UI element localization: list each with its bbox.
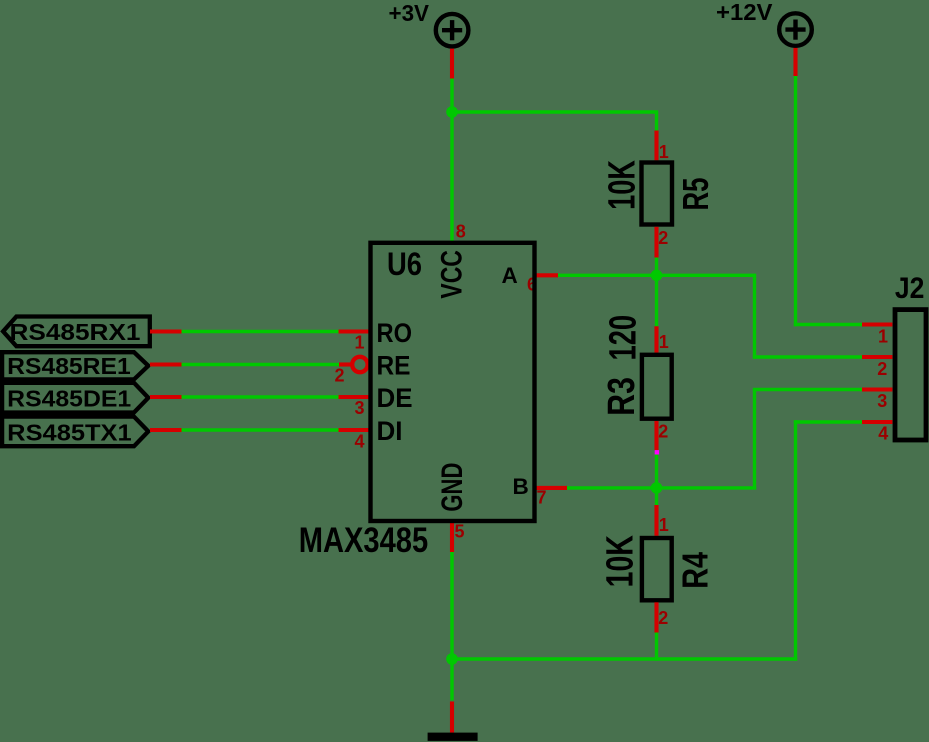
svg-text:J2: J2 xyxy=(895,272,925,305)
junction node A xyxy=(651,270,663,282)
pin stub flag DE1 xyxy=(150,395,182,399)
pin 3 DE stub xyxy=(339,395,369,399)
svg-text:RS485TX1: RS485TX1 xyxy=(7,419,132,445)
svg-text:2: 2 xyxy=(335,366,345,386)
pin 1 stub R4 xyxy=(654,505,658,536)
pin 2 RE stub with inversion bubble xyxy=(339,362,353,366)
svg-text:+12V: +12V xyxy=(716,0,773,25)
svg-text:1: 1 xyxy=(355,332,365,352)
wire RO net xyxy=(182,330,339,333)
body R4 xyxy=(642,538,672,600)
wire RE net xyxy=(182,363,340,366)
connector J2 xyxy=(862,272,926,444)
supply +12V pin stub xyxy=(793,48,797,76)
flag RS485RX1 xyxy=(3,317,150,347)
net GND wire xyxy=(450,420,862,700)
svg-text:3: 3 xyxy=(355,398,365,418)
pin 1 stub R5 xyxy=(654,131,658,161)
pin 1 stub R3 xyxy=(654,326,658,352)
svg-text:GND: GND xyxy=(436,463,469,512)
pin 4 stub J2 xyxy=(862,420,892,424)
svg-text:2: 2 xyxy=(877,359,887,379)
svg-text:+3V: +3V xyxy=(389,0,430,26)
resistor R4 xyxy=(599,505,715,661)
svg-text:RO: RO xyxy=(377,318,413,348)
pin stub flag TX1 xyxy=(150,428,182,432)
svg-text:1: 1 xyxy=(659,332,669,352)
svg-text:8: 8 xyxy=(456,221,466,241)
flag RS485TX1 xyxy=(2,417,148,447)
svg-text:4: 4 xyxy=(355,432,365,452)
svg-text:120: 120 xyxy=(602,315,644,361)
pin 1 stub J2 xyxy=(862,322,892,326)
supply +3V pin stub xyxy=(450,49,454,79)
flag RS485RE1 xyxy=(2,352,148,379)
node marker (magenta) on R3 pin 2 xyxy=(655,450,659,454)
wire DE net xyxy=(182,395,339,398)
net +12V wire xyxy=(794,76,862,326)
junction GND node xyxy=(446,653,458,665)
svg-text:U6: U6 xyxy=(387,246,422,282)
svg-text:B: B xyxy=(513,474,529,499)
pin 2 stub R3 xyxy=(654,421,658,450)
svg-text:2: 2 xyxy=(658,608,668,628)
wire DI net xyxy=(182,428,339,431)
body J2 xyxy=(895,310,926,440)
wire R4 to GND rail xyxy=(655,633,658,661)
svg-text:2: 2 xyxy=(658,421,668,441)
body R5 xyxy=(642,163,673,225)
ground symbol xyxy=(428,702,478,741)
svg-text:10K: 10K xyxy=(599,535,641,588)
resistor R5 xyxy=(602,131,717,258)
svg-text:DI: DI xyxy=(377,416,403,446)
flag RS485DE1 xyxy=(2,383,148,413)
svg-text:5: 5 xyxy=(455,522,465,542)
supply +12V symbol xyxy=(779,13,812,46)
svg-text:RS485RE1: RS485RE1 xyxy=(7,353,131,379)
pin 2 stub R5 xyxy=(654,227,658,258)
junction node B xyxy=(651,482,663,494)
svg-text:A: A xyxy=(502,263,518,288)
pin 5 GND stub xyxy=(450,521,454,553)
net A wire xyxy=(558,257,862,359)
pin stub flag RE1 xyxy=(150,362,182,366)
svg-text:10K: 10K xyxy=(602,160,644,210)
pin 2 stub R4 xyxy=(654,602,658,632)
body R3 xyxy=(642,355,672,419)
svg-text:1: 1 xyxy=(878,327,888,347)
net B wire xyxy=(567,390,862,506)
svg-text:RS485DE1: RS485DE1 xyxy=(7,386,131,412)
svg-text:MAX3485: MAX3485 xyxy=(299,520,429,560)
svg-text:3: 3 xyxy=(877,391,887,411)
op-amp U6 body MAX3485 xyxy=(371,243,535,521)
junction +3V node xyxy=(446,106,458,118)
svg-text:1: 1 xyxy=(659,142,669,162)
resistor R3 xyxy=(601,315,672,455)
svg-text:VCC: VCC xyxy=(436,250,469,299)
svg-text:1: 1 xyxy=(659,515,669,535)
ground bar xyxy=(428,733,478,741)
supply +3V symbol xyxy=(436,14,469,47)
svg-text:2: 2 xyxy=(658,228,668,248)
svg-text:R4: R4 xyxy=(674,552,715,589)
net N$+3V wire xyxy=(450,79,658,243)
pin 4 DI stub xyxy=(339,428,369,432)
svg-text:7: 7 xyxy=(537,487,547,507)
svg-text:R3: R3 xyxy=(601,377,643,416)
pin 3 stub J2 xyxy=(862,387,892,391)
pin 2 stub J2 xyxy=(862,355,892,359)
pin 1 RO stub xyxy=(339,329,369,333)
pin 7 B stub xyxy=(535,486,568,490)
svg-text:RE: RE xyxy=(377,351,411,381)
svg-text:DE: DE xyxy=(377,383,413,413)
svg-text:R5: R5 xyxy=(675,178,716,211)
pin stub flag RX1 xyxy=(150,329,182,333)
pin 6 A stub xyxy=(535,273,559,277)
ground pin stub xyxy=(450,702,454,733)
svg-text:RS485RX1: RS485RX1 xyxy=(10,319,141,345)
svg-text:4: 4 xyxy=(878,424,888,444)
